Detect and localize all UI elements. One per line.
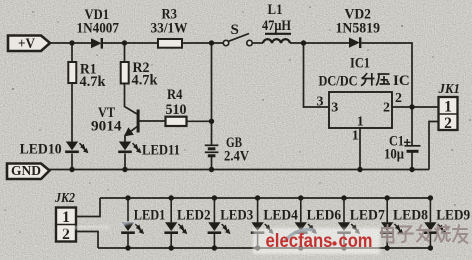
wire: battery column from top rail to GB plus plate [211, 43, 213, 145]
svg-text:2: 2 [383, 101, 390, 116]
node: VD1 cathode R2 branch [122, 40, 127, 45]
node: ground rail C1 [409, 167, 414, 172]
svg-text:IC: IC [393, 73, 410, 89]
wire: R1 bottom to LED10 anode [71, 83, 73, 142]
IC1 pin 1 labels [352, 114, 364, 143]
svg-text:9014: 9014 [91, 119, 122, 135]
LED LED7 [337, 195, 385, 250]
LED11 [118, 142, 180, 159]
wire: JK2 pin 1 right and up to LED bar top rail [76, 198, 100, 217]
node: ground rail R2 branch [122, 167, 127, 172]
watermark red dot [332, 241, 336, 245]
wire top rail: L1 to VD2 anode [290, 42, 349, 44]
IC1 box [329, 56, 392, 128]
wire: C1 bottom plate to ground rail [411, 153, 413, 170]
IC1 pin 2 labels [383, 91, 402, 116]
inductor L1 [262, 2, 291, 43]
svg-text:2: 2 [444, 115, 452, 132]
resistor R3 [151, 7, 188, 48]
wire top rail: R3 to switch S [182, 42, 223, 44]
svg-text:LED4: LED4 [263, 207, 298, 223]
wire: LED bar bottom rail [98, 247, 430, 249]
wire: LED10 cathode to ground rail [71, 154, 73, 170]
svg-text:LED10: LED10 [20, 142, 62, 158]
watermark sheen over LED1 [120, 222, 138, 227]
battery GB [205, 135, 250, 164]
wire: JK2 pin 2 right and down to LED bar bottom rail [76, 232, 98, 249]
wire top rail: +V tag to VD1 anode [50, 42, 91, 44]
watermark char you [453, 225, 468, 243]
resistor R1 [68, 61, 106, 90]
wire: node after L1 down and right to IC1 pin 3 [304, 43, 330, 107]
svg-text:R4: R4 [167, 87, 183, 103]
svg-text:10μ: 10μ [384, 147, 405, 163]
LED LED4 [251, 195, 299, 250]
watermark swoosh left [62, 226, 110, 230]
watermark char fa [417, 225, 431, 242]
node: ground rail R1 branch [69, 167, 74, 172]
svg-text:IC1: IC1 [350, 56, 370, 72]
node: L1 VD2 pin3 [301, 40, 306, 45]
wire: R2 branch from top rail [124, 43, 126, 62]
wire: JK1 pin 2 left and down to ground rail [429, 122, 439, 170]
diode VD2 [336, 6, 381, 48]
char ya (boost) [376, 74, 390, 86]
node: R3 battery column [209, 40, 214, 45]
wire: VT base to R4 [140, 120, 166, 122]
node: VD2 pin2 C1 [409, 104, 414, 109]
wire: LED11 cathode to ground rail [124, 154, 126, 170]
svg-text:com: com [339, 230, 373, 252]
wire: VT emitter to LED11 anode [124, 136, 126, 142]
switch S [223, 22, 252, 46]
node: R4 battery column [209, 119, 214, 124]
svg-text:LED8: LED8 [393, 207, 428, 223]
wire: IC1 pin 1 down to ground rail [359, 128, 361, 170]
node: ground rail battery [209, 167, 214, 172]
svg-text:LED11: LED11 [142, 143, 180, 159]
svg-text:4.7k: 4.7k [132, 72, 159, 88]
svg-text:+V: +V [18, 36, 35, 52]
watermark char zi [398, 227, 413, 243]
IC1 title DC/DC boost IC label [319, 73, 410, 89]
watermark swoosh through text [285, 229, 313, 241]
connector JK2 [54, 190, 76, 243]
svg-text:DC/DC: DC/DC [319, 73, 358, 89]
GND terminal [7, 164, 50, 180]
LED LED3 [208, 195, 254, 250]
LED LED6 [294, 195, 342, 250]
transistor VT (9014) [91, 105, 140, 135]
svg-text:510: 510 [166, 102, 187, 118]
watermark char dian [382, 225, 394, 243]
svg-text:3: 3 [331, 101, 338, 116]
svg-text:3: 3 [317, 95, 324, 110]
node: top rail R1 branch [69, 40, 74, 45]
svg-text:LED1: LED1 [134, 207, 166, 223]
LED10 [20, 142, 88, 158]
svg-text:S: S [231, 22, 239, 38]
svg-text:2: 2 [395, 91, 402, 106]
svg-text:1: 1 [444, 98, 452, 115]
svg-text:1: 1 [352, 129, 359, 144]
wire top rail: VD1 cathode to R3 [103, 42, 158, 44]
wire: VD2 cathode right then down to node with pin2 line and C1 [362, 43, 413, 145]
svg-text:1: 1 [62, 209, 70, 226]
+V terminal [8, 36, 50, 52]
svg-text:GND: GND [11, 164, 41, 179]
svg-text:1: 1 [357, 114, 364, 129]
diode VD1 [77, 7, 120, 49]
wire: R1 branch from top rail [71, 43, 73, 62]
resistor R4 [166, 87, 187, 126]
LED LED2 [164, 195, 210, 250]
svg-text:47μH: 47μH [262, 18, 291, 34]
watermark backdrop [253, 228, 380, 254]
LED LED8 [380, 195, 428, 250]
char sheng (boost) [361, 73, 375, 86]
svg-text:LED3: LED3 [220, 207, 253, 223]
svg-text:LED7: LED7 [350, 207, 385, 223]
svg-text:33/1W: 33/1W [151, 20, 188, 36]
svg-text:LED9: LED9 [436, 207, 470, 223]
svg-text:LED6: LED6 [307, 207, 342, 223]
IC1 pin 3 labels [317, 95, 339, 116]
svg-text:JK1: JK1 [438, 81, 460, 96]
node: ground rail IC1 pin1 [357, 167, 362, 172]
LED LED9 [424, 195, 471, 250]
wire top rail: switch S to L1 [252, 42, 263, 44]
resistor R2 [121, 60, 158, 88]
svg-text:2.4V: 2.4V [224, 148, 249, 164]
wire: IC1 pin 2 to JK1 pin 1 [392, 106, 439, 108]
svg-text:JK2: JK2 [54, 190, 75, 205]
svg-text:1N4007: 1N4007 [77, 20, 120, 36]
svg-text:L1: L1 [268, 2, 283, 18]
svg-text:1N5819: 1N5819 [336, 20, 381, 36]
LED LED1 [121, 195, 165, 250]
svg-text:4.7k: 4.7k [80, 74, 107, 90]
wire: R2 bottom to VT collector [125, 84, 138, 115]
watermark char shao [435, 225, 451, 242]
svg-text:elecfans: elecfans [266, 230, 333, 252]
wire: ground rail [50, 169, 430, 171]
connector JK1 [438, 81, 460, 132]
svg-text:LED2: LED2 [177, 207, 211, 223]
wire: GB minus plate to ground rail [211, 157, 213, 170]
wire: LED bar top rail [100, 197, 430, 199]
wire: R4 to battery column node [187, 120, 212, 122]
capacitor C1 [384, 133, 421, 162]
